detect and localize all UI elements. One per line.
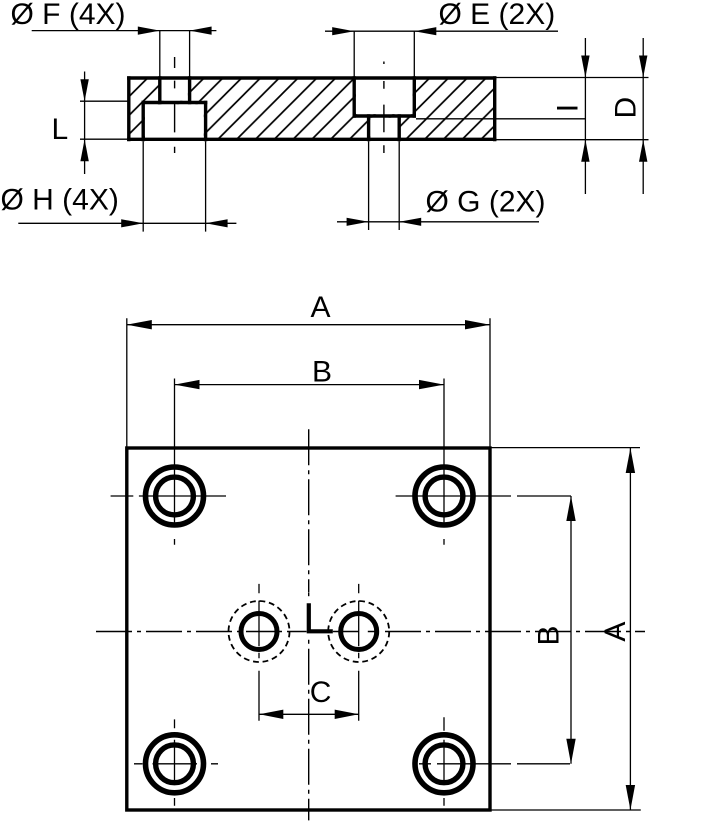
dimension F arrows <box>138 27 160 35</box>
svg-text:B: B <box>312 355 332 388</box>
center hole left centerline <box>258 584 260 721</box>
plate section hatch fill <box>129 78 495 140</box>
dimension B top line <box>175 384 445 386</box>
plate top edge <box>127 76 496 79</box>
dimension G arrows <box>347 218 369 226</box>
svg-text:Ø E (2X): Ø E (2X) <box>439 0 556 31</box>
corner hole top-left bore circle <box>156 477 194 515</box>
plate outline plan view <box>127 448 490 810</box>
dimension A top extension lines <box>127 318 490 448</box>
hole H walls <box>143 101 205 141</box>
plate right edge <box>493 76 496 141</box>
hole H step <box>142 101 208 104</box>
svg-text:Ø F (4X): Ø F (4X) <box>11 0 126 31</box>
dimension L line <box>84 72 86 175</box>
dimension H extension lines <box>143 141 205 231</box>
corner hole bottom-right counterbore circle <box>415 735 473 793</box>
center hole left hidden counterbore circle <box>229 601 290 662</box>
label L center <box>309 603 333 631</box>
svg-text:A: A <box>311 291 331 324</box>
svg-text:D: D <box>610 97 643 119</box>
corner hole bottom-right bore circle <box>425 745 463 783</box>
dimension F extension lines <box>160 31 190 77</box>
plate vertical centerline <box>308 429 310 592</box>
dimension E extension lines <box>354 31 414 76</box>
plate left edge <box>127 76 130 141</box>
dimension A top line <box>127 324 490 326</box>
svg-text:Ø H (4X): Ø H (4X) <box>1 184 119 217</box>
svg-text:B: B <box>533 625 566 645</box>
svg-text:Ø G (2X): Ø G (2X) <box>426 186 546 219</box>
corner hole top-right centerlines <box>396 379 571 545</box>
corner hole bottom-left bore circle <box>156 745 194 783</box>
plate bottom edge <box>127 138 496 141</box>
hole G walls <box>369 114 400 141</box>
dimension C line <box>259 713 358 715</box>
bottom face extension line <box>496 139 648 141</box>
dimension A right line <box>629 448 631 810</box>
dimension B top arrows <box>175 380 200 389</box>
plate horizontal centerline <box>96 631 290 633</box>
dimension E line <box>325 30 558 32</box>
label I <box>551 104 584 112</box>
top face extension line <box>496 77 648 79</box>
dimension L arrows <box>80 79 88 101</box>
dimension F line <box>32 30 217 32</box>
dimension B right arrows <box>566 496 575 521</box>
hole F walls <box>160 76 190 104</box>
svg-text:I: I <box>551 104 584 112</box>
corner hole top-right counterbore circle <box>415 467 473 525</box>
label D <box>610 97 643 119</box>
dimension D line <box>642 38 644 194</box>
corner hole bottom-left counterbore circle <box>146 735 204 793</box>
dimension G line <box>337 221 539 223</box>
section centerline of holes E/G <box>383 62 385 154</box>
center hole right bore circle <box>341 614 377 650</box>
label B right <box>533 625 566 645</box>
center hole left bore circle <box>241 614 277 650</box>
dimension A top arrows <box>127 320 152 329</box>
dimension D arrows <box>639 56 647 78</box>
hole E step <box>353 114 417 117</box>
hole F slot void <box>162 76 188 101</box>
hole H counterbore void <box>145 104 204 141</box>
hole G slot void <box>370 118 397 142</box>
dimension E arrows <box>332 27 354 35</box>
label A right <box>599 622 632 642</box>
dimension L extension lines <box>80 101 129 139</box>
corner hole top-right bore circle <box>425 477 463 515</box>
corner hole top-left counterbore circle <box>146 467 204 525</box>
dimension A right arrows <box>626 448 635 473</box>
dimension I line <box>584 38 586 194</box>
svg-text:A: A <box>599 622 632 642</box>
corner hole bottom-right centerlines <box>419 717 570 806</box>
dimension H line <box>18 222 236 224</box>
dimension H arrows <box>121 219 143 227</box>
svg-text:L: L <box>52 113 69 146</box>
dimension I arrows <box>581 56 589 78</box>
dimension I step extension line <box>416 118 585 120</box>
center hole right hidden counterbore circle <box>328 601 389 662</box>
corner hole top-left centerlines <box>111 379 226 545</box>
center hole right centerline <box>358 584 360 721</box>
hole E counterbore void <box>356 76 413 115</box>
plate section outline <box>127 76 496 141</box>
corner hole bottom-left centerlines <box>134 719 218 805</box>
section centerline of holes F/H <box>174 57 176 153</box>
hole E walls <box>354 76 414 117</box>
dimension B right line <box>570 496 572 764</box>
dimension G extension lines <box>369 141 400 230</box>
svg-text:C: C <box>310 676 332 709</box>
dimension A right extension lines <box>490 448 641 810</box>
dimension C arrows <box>259 710 283 719</box>
